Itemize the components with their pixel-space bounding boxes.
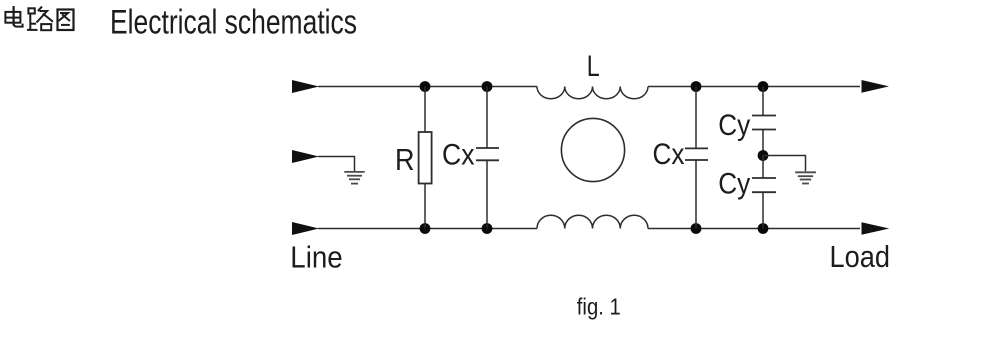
junction dot top R xyxy=(420,81,431,92)
svg-text:Electrical schematics: Electrical schematics xyxy=(110,4,357,42)
svg-text:fig. 1: fig. 1 xyxy=(577,293,621,319)
terminal arrow line bottom xyxy=(292,222,319,235)
inductor L top winding xyxy=(537,87,648,99)
junction dot bottom Cy xyxy=(758,223,769,234)
terminal arrow load top xyxy=(862,80,890,93)
wire to left ground xyxy=(318,157,355,172)
title CJK 图 xyxy=(58,10,74,31)
title CJK 电 xyxy=(5,6,22,27)
resistor R xyxy=(419,87,432,229)
junction dot bottom Cx1 xyxy=(482,223,493,234)
junction dot top Cy xyxy=(758,81,769,92)
wire to right ground xyxy=(763,156,806,172)
inductor L bottom winding xyxy=(537,215,648,228)
capacitor Cy1 xyxy=(752,87,776,156)
ground symbol left xyxy=(344,172,364,184)
title CJK 路 xyxy=(27,7,53,31)
wire top left xyxy=(318,86,537,88)
svg-text:R: R xyxy=(395,142,415,177)
wire bottom right xyxy=(648,228,860,230)
svg-text:L: L xyxy=(587,50,600,83)
svg-text:Cx: Cx xyxy=(442,139,475,172)
core circle (common-mode choke core) xyxy=(561,118,624,181)
junction dot top Cx1 xyxy=(482,81,493,92)
svg-text:Line: Line xyxy=(290,240,342,274)
wire bottom left xyxy=(318,228,537,230)
svg-text:Cy: Cy xyxy=(718,109,750,142)
svg-text:Cy: Cy xyxy=(718,168,750,201)
svg-text:Cx: Cx xyxy=(653,138,685,171)
svg-text:Load: Load xyxy=(830,240,891,274)
capacitor Cx2 xyxy=(685,87,708,229)
ground symbol right xyxy=(795,172,816,183)
terminal arrow line top xyxy=(292,80,319,93)
wire top right xyxy=(648,86,860,88)
terminal arrow load bottom xyxy=(862,222,890,235)
junction dot bottom Cx2 xyxy=(691,223,702,234)
junction dot bottom R xyxy=(420,223,431,234)
junction dot top Cx2 xyxy=(691,81,702,92)
terminal arrow ground left xyxy=(292,150,319,163)
junction dot Cy midpoint xyxy=(758,150,769,161)
capacitor Cx1 xyxy=(476,87,499,229)
capacitor Cy2 xyxy=(752,156,776,229)
